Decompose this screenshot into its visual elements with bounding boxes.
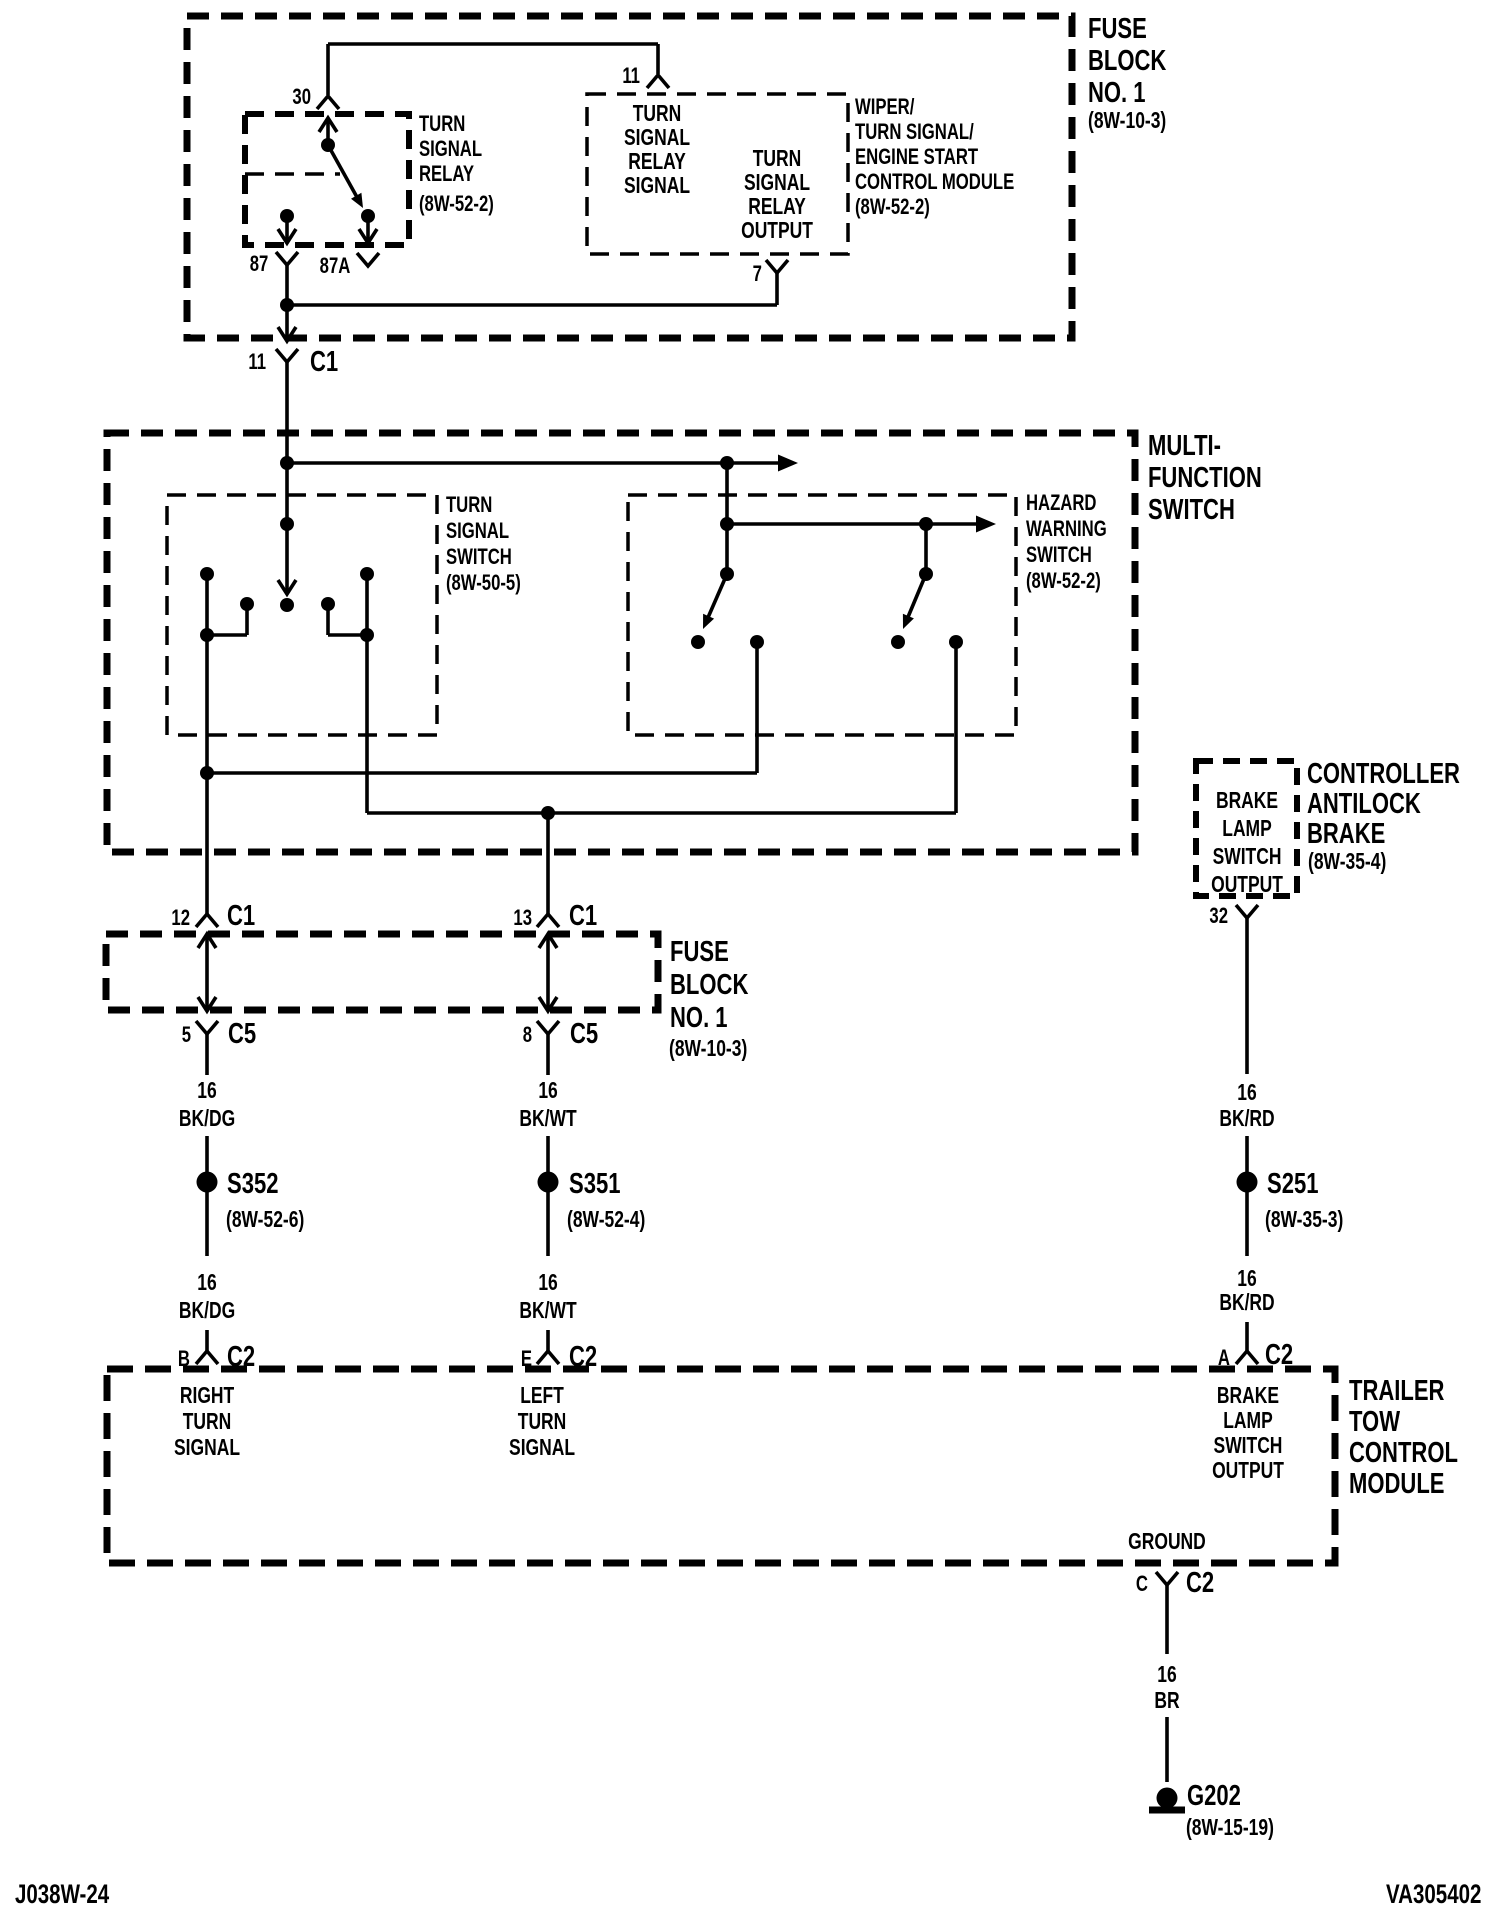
svg-text:(8W-52-6): (8W-52-6) [226,1208,304,1233]
svg-text:WIPER/: WIPER/ [855,95,915,120]
svg-text:8: 8 [523,1023,532,1048]
svg-text:(8W-52-2): (8W-52-2) [1026,569,1101,594]
hazard left pole dot [720,567,734,581]
svg-text:BK/WT: BK/WT [519,1107,577,1132]
svg-text:BK/DG: BK/DG [179,1299,235,1324]
brake lamp switch output dashed box [1196,761,1297,896]
svg-text:NO. 1: NO. 1 [670,1002,728,1034]
svg-text:TURN: TURN [419,112,465,137]
wire TS left branch horizontal [207,633,247,637]
TS left outer contact dot [200,567,214,581]
wire C1 down to multi-function switch [285,362,289,463]
wire hazard right output down [954,642,958,813]
svg-text:NO. 1: NO. 1 [1088,77,1146,109]
svg-text:BLOCK: BLOCK [670,969,749,1001]
wire middle down to 13 C1 [546,813,550,914]
wire horizontal arrow line MFS [287,461,778,465]
connector 8 C5 [537,1021,559,1034]
svg-text:G202: G202 [1187,1780,1241,1812]
svg-text:(8W-52-2): (8W-52-2) [419,192,494,217]
wire hazard left pole [725,524,729,574]
connector B C2 [196,1351,218,1364]
wire mid to E C2 [546,1330,550,1351]
wire horizontal pin7 to junction [287,303,777,307]
svg-text:FUSE: FUSE [1088,13,1147,45]
splice S251 [1237,1172,1258,1193]
wire TS left branch up [245,604,249,635]
wire TS right branch horizontal [328,633,367,637]
connector C C2 [1156,1572,1178,1585]
multi-function switch dashed box [107,433,1135,852]
svg-text:SIGNAL: SIGNAL [446,519,509,544]
junction dot to hazard switch [720,456,734,470]
relay switch arm to 87A [328,145,360,203]
TS left corner junction dot [200,628,214,642]
wire pin 7 down [775,273,779,305]
fuse block no.1 (top) dashed box [187,16,1072,338]
svg-text:CONTROL: CONTROL [1349,1437,1458,1469]
wire through fuse block left [205,934,209,1010]
wire pin 32 down [1245,918,1249,1074]
wire right above splice [1245,1136,1249,1172]
arrowhead into fuse block left [198,934,216,948]
svg-text:32: 32 [1209,904,1228,929]
svg-text:BK/RD: BK/RD [1219,1107,1274,1132]
svg-text:(8W-52-4): (8W-52-4) [567,1208,645,1233]
svg-text:BK/RD: BK/RD [1219,1291,1274,1316]
connector E C2 [537,1351,559,1364]
junction dot MFS input [280,456,294,470]
connector 5 C5 [196,1021,218,1034]
wire pin 87 down to fuse block edge [285,265,289,340]
svg-text:7: 7 [753,262,762,287]
hazard right output contact dot [949,635,963,649]
wire into hazard switch [725,463,729,524]
wire through fuse block mid [546,934,550,1010]
svg-text:12: 12 [171,906,190,931]
arrowhead exiting fuse block no.1 [278,327,296,341]
svg-text:LAMP: LAMP [1222,817,1271,842]
svg-text:SIGNAL: SIGNAL [744,171,810,196]
svg-text:(8W-15-19): (8W-15-19) [1186,1816,1274,1841]
svg-text:ANTILOCK: ANTILOCK [1307,788,1421,820]
wire left to B C2 [205,1330,209,1351]
svg-text:16: 16 [197,1271,216,1296]
wire 5C5 stem [205,1034,209,1075]
svg-text:WARNING: WARNING [1026,517,1107,542]
connector A C2 [1236,1351,1258,1364]
trailer tow control module dashed box [107,1369,1335,1563]
svg-text:TURN: TURN [753,147,802,172]
TS right corner junction dot [360,628,374,642]
junction dot left link [200,766,214,780]
svg-text:VA305402: VA305402 [1386,1879,1481,1909]
wire TS left pole down [205,574,209,773]
svg-text:BRAKE: BRAKE [1217,1384,1279,1409]
svg-text:MULTI-: MULTI- [1148,430,1221,462]
svg-text:87A: 87A [320,254,351,279]
svg-text:BR: BR [1154,1689,1179,1714]
svg-text:SIGNAL: SIGNAL [509,1436,575,1461]
wiper/turn signal/engine start control module dashed box [587,94,848,254]
dot on TS input wire [280,517,294,531]
connector 32 [1236,905,1258,918]
connector chevron module pin 7 [766,260,788,273]
svg-text:C1: C1 [227,900,255,932]
svg-text:TURN: TURN [518,1410,567,1435]
wire hazard right pole [924,524,928,574]
svg-text:11: 11 [622,64,640,89]
connector chevron module pin 11 [647,75,669,88]
svg-text:BK/DG: BK/DG [179,1107,235,1132]
arrowhead into fuse block mid [539,934,557,948]
wire down into turn signal switch [285,463,289,592]
hazard right contact dot [891,635,905,649]
wire left down to 12 C1 [205,773,209,914]
svg-text:SWITCH: SWITCH [1026,543,1092,568]
junction dot 87/pin7 [280,298,294,312]
svg-text:(8W-35-3): (8W-35-3) [1265,1208,1343,1233]
hazard junction dot right [919,517,933,531]
svg-text:S351: S351 [569,1168,620,1200]
solid arrowhead right (MFS top) [778,455,798,472]
wire 87 to box edge [285,216,289,242]
connector chevron pin 87 [276,252,298,265]
TS right outer contact dot [360,567,374,581]
svg-text:TURN: TURN [446,493,492,518]
svg-text:87: 87 [250,252,269,277]
wire top horizontal relay30-module11 [328,42,658,46]
svg-text:RELAY: RELAY [748,195,806,220]
connector 12 C1 [196,914,218,927]
wire TS right pole down [365,574,369,813]
wire right to A C2 [1245,1322,1249,1351]
TS common contact dot [280,598,294,612]
svg-text:RELAY: RELAY [628,150,686,175]
svg-text:30: 30 [292,85,311,110]
arrowhead out of fuse block mid [539,997,557,1011]
svg-text:(8W-10-3): (8W-10-3) [1088,109,1166,134]
svg-text:SIGNAL: SIGNAL [174,1436,240,1461]
svg-text:13: 13 [513,906,532,931]
svg-text:BRAKE: BRAKE [1216,789,1278,814]
svg-text:CONTROLLER: CONTROLLER [1307,758,1460,790]
svg-text:TURN SIGNAL/: TURN SIGNAL/ [855,120,974,145]
wire left below splice [205,1192,209,1256]
svg-text:GROUND: GROUND [1128,1530,1206,1555]
svg-text:(8W-10-3): (8W-10-3) [669,1037,747,1062]
svg-text:SWITCH: SWITCH [1148,494,1235,526]
svg-text:S352: S352 [227,1168,278,1200]
ground symbol G202 [1157,1788,1178,1809]
svg-text:(8W-35-4): (8W-35-4) [1308,850,1386,875]
wire TS right branch up [326,604,330,635]
svg-text:16: 16 [1237,1267,1256,1292]
svg-text:ENGINE START: ENGINE START [855,145,978,170]
hazard right switch arm [905,574,926,624]
wire link right pole to hazard-right output [367,811,956,815]
svg-text:FUSE: FUSE [670,936,729,968]
svg-text:LEFT: LEFT [520,1384,564,1409]
svg-text:TRAILER: TRAILER [1349,1375,1445,1407]
connector 13 C1 [537,914,559,927]
splice S352 [197,1172,218,1193]
wire right below splice [1245,1192,1249,1256]
relay internal dashed divider [245,172,340,176]
svg-text:SIGNAL: SIGNAL [624,126,690,151]
svg-text:OUTPUT: OUTPUT [1211,873,1283,898]
TS right inner contact dot [321,597,335,611]
fuse block no.1 (middle) dashed box [106,934,658,1010]
wire 8C5 stem [546,1034,550,1075]
hazard junction dot [720,517,734,531]
connector chevron pin 87A [357,253,379,266]
svg-text:(8W-52-2): (8W-52-2) [855,195,930,220]
svg-text:SWITCH: SWITCH [446,545,512,570]
hazard warning switch dashed box [628,495,1016,735]
svg-text:C5: C5 [570,1018,598,1050]
svg-text:J038W-24: J038W-24 [15,1879,110,1909]
wire horizontal arrow line hazard [727,522,976,526]
svg-text:S251: S251 [1267,1168,1318,1200]
svg-text:16: 16 [1157,1663,1176,1688]
splice S351 [538,1172,559,1193]
hazard right pole dot [919,567,933,581]
svg-text:11: 11 [248,350,266,375]
svg-text:BRAKE: BRAKE [1307,818,1385,850]
svg-text:16: 16 [538,1079,557,1104]
hazard left switch arm [705,574,727,624]
svg-text:C1: C1 [310,346,338,378]
svg-text:SWITCH: SWITCH [1213,845,1282,870]
wire drop to pin 30 [326,44,330,95]
svg-text:RELAY: RELAY [419,162,474,187]
relay contact dot 87 [280,209,294,223]
svg-text:C: C [1136,1572,1148,1597]
turn signal switch dashed box [167,495,437,735]
svg-text:FUNCTION: FUNCTION [1148,462,1262,494]
junction dot to left turn signal feed [541,806,555,820]
relay common contact dot [321,138,335,152]
wire pin30 to relay common [326,118,330,145]
svg-text:SIGNAL: SIGNAL [419,137,482,162]
svg-text:OUTPUT: OUTPUT [741,219,813,244]
hazard left output contact dot [750,635,764,649]
solid arrowhead right (hazard) [976,516,996,533]
svg-text:SWITCH: SWITCH [1214,1434,1283,1459]
svg-text:(8W-50-5): (8W-50-5) [446,571,521,596]
svg-text:5: 5 [182,1023,191,1048]
svg-text:CONTROL MODULE: CONTROL MODULE [855,170,1014,195]
svg-text:16: 16 [197,1079,216,1104]
arrowhead into relay at pin 30 [319,118,337,132]
wire left above splice [205,1136,209,1172]
wire C C2 down [1165,1585,1169,1654]
svg-text:BLOCK: BLOCK [1088,45,1167,77]
svg-text:TOW: TOW [1349,1406,1401,1438]
svg-text:C2: C2 [1186,1567,1214,1599]
connector 11 C1 [276,349,298,362]
wire mid above splice [546,1136,550,1172]
wire hazard left output down [755,642,759,773]
svg-text:TURN: TURN [633,102,682,127]
wire mid below splice [546,1192,550,1256]
svg-text:C5: C5 [228,1018,256,1050]
svg-text:HAZARD: HAZARD [1026,491,1097,516]
svg-text:OUTPUT: OUTPUT [1212,1459,1284,1484]
svg-text:BK/WT: BK/WT [519,1299,577,1324]
relay contact dot 87A [361,209,375,223]
arrowhead to TS common contact [278,580,296,594]
svg-text:LAMP: LAMP [1223,1409,1272,1434]
arrowhead out of fuse block left [198,997,216,1011]
arrowhead out of relay at 87A [359,229,377,243]
svg-text:TURN: TURN [183,1410,232,1435]
svg-text:SIGNAL: SIGNAL [624,174,690,199]
arrowhead out of relay at 87 [278,229,296,243]
svg-text:MODULE: MODULE [1349,1468,1444,1500]
wire to ground G202 [1165,1717,1169,1782]
wire drop to module pin 11 [656,44,660,74]
svg-text:RIGHT: RIGHT [180,1384,235,1409]
turn signal relay dashed box [245,114,409,245]
svg-text:16: 16 [538,1271,557,1296]
wire 87A to box edge [366,216,370,242]
svg-text:C1: C1 [569,900,597,932]
hazard left contact dot [691,635,705,649]
connector chevron pin 30 [317,96,339,109]
svg-text:16: 16 [1237,1081,1256,1106]
TS left inner contact dot [240,597,254,611]
wire link left pole to hazard-left output [207,771,757,775]
